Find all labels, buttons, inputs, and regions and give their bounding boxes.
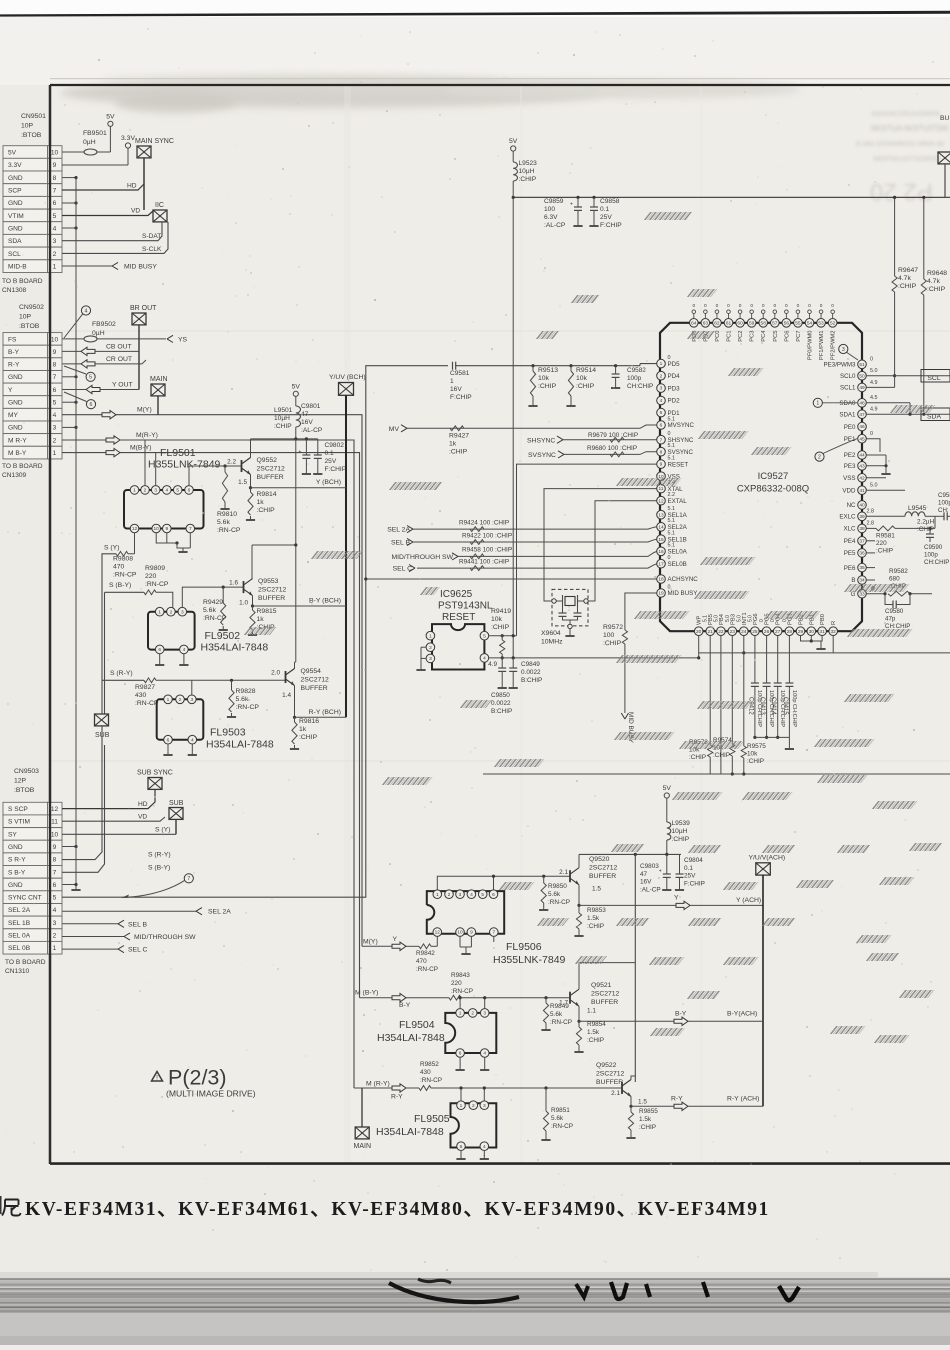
svg-text::RN-CP: :RN-CP: [135, 700, 159, 707]
svg-text:1.5k: 1.5k: [639, 1116, 652, 1123]
svg-text:6: 6: [90, 402, 93, 408]
svg-text:BUFFER: BUFFER: [257, 474, 284, 481]
svg-text:FL9506: FL9506: [506, 941, 542, 953]
svg-text:FS: FS: [8, 336, 17, 343]
svg-text:BUFFER: BUFFER: [596, 1079, 623, 1086]
svg-text:4.9: 4.9: [870, 407, 878, 413]
svg-text:M R-Y: M R-Y: [8, 437, 27, 444]
svg-text:25: 25: [752, 629, 758, 635]
svg-text:CH:CHIP: CH:CHIP: [885, 623, 910, 630]
svg-text:0: 0: [762, 303, 765, 309]
svg-text:0: 0: [739, 303, 742, 309]
svg-text:4.9: 4.9: [870, 380, 878, 386]
svg-text:7: 7: [53, 374, 57, 381]
svg-text:1: 1: [53, 450, 57, 457]
svg-text:100p: 100p: [938, 500, 950, 507]
svg-text:9: 9: [53, 349, 57, 356]
wire M(B-Y) input: [355, 990, 449, 1009]
svg-text:6: 6: [188, 488, 191, 494]
svg-text:36: 36: [859, 551, 865, 557]
svg-text:13: 13: [658, 512, 664, 518]
svg-text:!: !: [156, 1075, 158, 1082]
svg-text:PC5: PC5: [773, 331, 779, 342]
svg-text:4: 4: [53, 225, 57, 232]
svg-text:Y: Y: [393, 936, 398, 943]
resistor R9419: [491, 608, 511, 660]
resistor R9828: [227, 679, 259, 717]
svg-text:46: 46: [859, 424, 865, 430]
svg-text:C9582: C9582: [627, 367, 646, 374]
resistor R9573: [689, 635, 713, 774]
connector CN9501: [2, 113, 62, 294]
wire S-DAT: [62, 222, 162, 241]
svg-text:CXP86332-008Q: CXP86332-008Q: [737, 484, 809, 495]
svg-text:Y/UV (BCH): Y/UV (BCH): [329, 374, 366, 381]
wire HD (sub): [62, 790, 155, 809]
svg-text:SCP: SCP: [8, 187, 22, 194]
svg-text:0: 0: [782, 619, 788, 622]
wire PE4/PE5/PE6/B stubs: [866, 541, 875, 580]
svg-text:470: 470: [113, 564, 125, 571]
svg-text:R9816: R9816: [299, 718, 319, 725]
svg-text:39: 39: [859, 514, 865, 520]
svg-text:63: 63: [703, 320, 709, 326]
svg-text::CHIP: :CHIP: [898, 283, 917, 290]
svg-text:SCL: SCL: [927, 375, 940, 382]
svg-text:BUFFER: BUFFER: [301, 685, 328, 692]
svg-text:52: 52: [830, 320, 836, 326]
svg-text:M (R-Y): M (R-Y): [366, 1080, 390, 1087]
svg-text:10k: 10k: [491, 616, 503, 623]
connector CN9502: [2, 304, 62, 479]
svg-text:7: 7: [53, 869, 57, 876]
svg-text:4: 4: [483, 1144, 486, 1150]
svg-text:PE6: PE6: [844, 565, 856, 572]
svg-text::AL-CP: :AL-CP: [301, 427, 323, 434]
svg-text:4: 4: [53, 907, 57, 914]
svg-text:R9850: R9850: [548, 883, 567, 890]
svg-text:5.1: 5.1: [668, 543, 676, 549]
svg-text:16V: 16V: [301, 419, 313, 426]
resistor R9647: [892, 196, 918, 378]
svg-text:1: 1: [133, 488, 136, 494]
svg-text:8: 8: [53, 857, 57, 864]
svg-text::CHIP: :CHIP: [491, 624, 510, 631]
svg-text:M(Y): M(Y): [137, 407, 152, 414]
svg-text::CHIP: :CHIP: [927, 286, 946, 293]
resistor R9513: [528, 364, 558, 406]
svg-text:Q9522: Q9522: [596, 1062, 617, 1069]
svg-text:16: 16: [658, 549, 664, 555]
svg-text:R9679 100 :CHIP: R9679 100 :CHIP: [588, 432, 638, 439]
svg-text:4: 4: [165, 488, 168, 494]
annotation node 7: [122, 874, 193, 898]
svg-text:+: +: [570, 202, 573, 208]
svg-text:2.1: 2.1: [611, 1090, 620, 1097]
svg-text:56: 56: [784, 320, 790, 326]
svg-text:S (R-Y): S (R-Y): [148, 852, 171, 859]
svg-text:12: 12: [658, 498, 664, 504]
svg-text:2: 2: [448, 892, 451, 898]
wire 5V rail (ACH buffers): [579, 853, 681, 1082]
svg-text:RESET: RESET: [668, 461, 689, 468]
svg-text:100p: 100p: [924, 552, 938, 559]
svg-text:0: 0: [773, 303, 776, 309]
svg-text:EXLC: EXLC: [839, 514, 856, 521]
svg-text:5.6k: 5.6k: [548, 891, 561, 898]
svg-text:430: 430: [135, 692, 147, 699]
svg-text:X9604: X9604: [541, 630, 561, 637]
svg-text:15: 15: [658, 537, 664, 543]
svg-text:NC: NC: [847, 502, 856, 509]
node Y/U/V (ACH): [749, 855, 786, 1107]
resistor R9854: [574, 1020, 606, 1052]
svg-text:3: 3: [483, 1011, 486, 1017]
hatch marks (scan artifacts): [244, 212, 943, 1043]
svg-text:R9647: R9647: [898, 267, 918, 274]
svg-text:C9849: C9849: [521, 661, 540, 668]
svg-text:5: 5: [481, 892, 484, 898]
svg-text:7: 7: [187, 876, 190, 882]
svg-text:L9545: L9545: [908, 505, 927, 512]
filter FL9501: [124, 440, 221, 554]
svg-text:MAIN: MAIN: [354, 1143, 372, 1150]
capacitor C9858: [589, 197, 622, 229]
svg-text:C9415: C9415: [782, 697, 788, 715]
svg-text:47: 47: [640, 871, 648, 878]
svg-text:0: 0: [692, 303, 695, 309]
svg-text:53: 53: [818, 320, 824, 326]
svg-text:R-Y: R-Y: [8, 362, 20, 369]
svg-text:C9802: C9802: [325, 442, 345, 449]
svg-text:S-CLK: S-CLK: [142, 246, 162, 253]
IC9527 right pins 51-33: [824, 356, 878, 598]
wire 5V rail: [512, 196, 950, 658]
svg-text:PE3/PWM3: PE3/PWM3: [824, 362, 857, 369]
svg-text:SCL0: SCL0: [840, 373, 856, 380]
capacitor C9849: [509, 656, 543, 688]
svg-text::AL-CP: :AL-CP: [640, 886, 661, 893]
svg-text:45: 45: [859, 436, 865, 442]
svg-text:C9581: C9581: [450, 370, 470, 377]
svg-text:9: 9: [165, 526, 168, 532]
svg-text:(MULTI IMAGE DRIVE): (MULTI IMAGE DRIVE): [166, 1089, 256, 1099]
svg-text:L9523: L9523: [519, 160, 538, 167]
svg-text:R9809: R9809: [145, 565, 165, 572]
wire WP / R row: [697, 635, 950, 659]
svg-text:3: 3: [660, 386, 663, 392]
annotation node 2: [815, 439, 857, 462]
svg-text:1: 1: [816, 401, 819, 407]
svg-text:2.2: 2.2: [668, 492, 676, 498]
resistor R9843: [449, 972, 570, 1000]
svg-text::BTOB: :BTOB: [19, 323, 40, 330]
svg-text::CHIP: :CHIP: [689, 754, 706, 761]
svg-text:0.1: 0.1: [325, 450, 334, 457]
svg-text:220: 220: [451, 980, 462, 987]
svg-text:10: 10: [51, 149, 59, 156]
svg-text:8: 8: [53, 175, 57, 182]
capacitor C9804: [675, 854, 705, 890]
svg-text:A-9M OOAMROO MRA-W: A-9M OOAMROO MRA-W: [856, 139, 945, 148]
svg-text:2: 2: [179, 697, 182, 703]
svg-text:BR OUT: BR OUT: [130, 305, 157, 312]
svg-text:12: 12: [132, 526, 138, 532]
sync box SUB SYNC: [137, 770, 173, 790]
svg-text:CH:: CH:: [938, 507, 949, 514]
svg-text:R9514: R9514: [576, 367, 596, 374]
svg-text:BU: BU: [940, 115, 950, 122]
svg-text:GND: GND: [8, 399, 23, 406]
svg-text:0: 0: [759, 619, 765, 622]
svg-text:6: 6: [53, 882, 57, 889]
svg-text:PB0: PB0: [820, 614, 826, 625]
svg-text:B:CHIP: B:CHIP: [521, 677, 542, 684]
svg-text:R9852: R9852: [420, 1061, 439, 1068]
svg-text:RESET: RESET: [442, 612, 475, 623]
ferrite bead FB9502: [62, 321, 166, 342]
svg-text:4.5: 4.5: [870, 395, 878, 401]
svg-text:PG6: PG6: [753, 613, 759, 625]
svg-text:H354LAI-7848: H354LAI-7848: [201, 642, 269, 654]
svg-text:5.0: 5.0: [747, 615, 753, 622]
svg-text:R9680 100 :CHIP: R9680 100 :CHIP: [587, 445, 637, 452]
svg-text:MY: MY: [8, 412, 18, 419]
svg-text:ACHSYNC: ACHSYNC: [668, 576, 699, 583]
sync box BR OUT: [130, 305, 157, 390]
svg-text:5V: 5V: [8, 149, 17, 156]
resistor R9852: [419, 1061, 622, 1090]
capacitor C9590: [924, 527, 949, 566]
svg-text:R-Y: R-Y: [671, 1095, 683, 1102]
svg-text:MID-B: MID-B: [8, 264, 27, 271]
svg-text:S B-Y: S B-Y: [8, 869, 26, 876]
svg-text:5: 5: [89, 375, 92, 381]
IC9527 left pins 1-19: [657, 355, 699, 597]
svg-text:S (B-Y): S (B-Y): [148, 864, 170, 871]
svg-text:27: 27: [775, 629, 781, 635]
IC U9527 CXP86332-008Q: [660, 323, 862, 631]
resistor R9814: [246, 486, 277, 520]
svg-text:0: 0: [785, 303, 788, 309]
svg-text:M(B-Y): M(B-Y): [130, 445, 152, 452]
resistor R9648: [921, 196, 947, 416]
svg-text:2SC2712: 2SC2712: [589, 864, 618, 871]
svg-text:4: 4: [483, 656, 486, 662]
svg-text:8: 8: [53, 362, 57, 369]
svg-text:8: 8: [660, 449, 663, 455]
svg-text:PC0: PC0: [715, 331, 721, 342]
svg-text:M (B-Y): M (B-Y): [355, 990, 378, 997]
svg-text:4.7k: 4.7k: [927, 278, 940, 285]
svg-text:5: 5: [53, 213, 57, 220]
wire 5V collector rail (main stage): [251, 437, 318, 662]
svg-text:2SC2712: 2SC2712: [591, 990, 620, 997]
svg-text::RN-CP: :RN-CP: [548, 899, 570, 906]
svg-text:0.1: 0.1: [684, 865, 693, 872]
annotation node 5: [64, 366, 95, 381]
svg-text:F:CHIP: F:CHIP: [600, 222, 622, 229]
svg-text:57: 57: [772, 320, 778, 326]
svg-text:2.1: 2.1: [559, 869, 568, 876]
wire base Q9520: [437, 869, 570, 890]
svg-text:P(2/3): P(2/3): [168, 1066, 227, 1090]
svg-text::RN-CP: :RN-CP: [451, 988, 473, 995]
svg-text:TO B BOARD: TO B BOARD: [2, 463, 43, 470]
svg-text:Q9553: Q9553: [258, 578, 279, 585]
svg-text:MOITUA NOITUITSM: MOITUA NOITUITSM: [871, 124, 948, 133]
svg-text:4: 4: [470, 892, 473, 898]
svg-text:1.5k: 1.5k: [587, 1029, 600, 1036]
svg-text:SUB: SUB: [169, 800, 184, 807]
svg-text:ASIAACONJUGRPA: ASIAACONJUGRPA: [871, 109, 940, 118]
svg-text:18: 18: [658, 577, 664, 583]
svg-text:0: 0: [770, 619, 776, 622]
svg-text:6: 6: [492, 892, 495, 898]
svg-text:1: 1: [460, 1103, 463, 1109]
svg-text:100: 100: [603, 632, 615, 639]
sync box IIC: [153, 202, 167, 222]
svg-text:0µH: 0µH: [83, 139, 96, 146]
resistor R9809: [105, 565, 173, 714]
svg-text:R9815: R9815: [257, 608, 277, 615]
svg-text:H355LNK-7849: H355LNK-7849: [148, 459, 221, 471]
supply 5V: [106, 114, 115, 153]
svg-text::CHIP: :CHIP: [603, 640, 622, 647]
svg-text:100: 100: [544, 206, 555, 213]
svg-text:1k: 1k: [257, 499, 265, 506]
svg-text:5.1: 5.1: [668, 443, 676, 449]
annotation P(2/3): [152, 1066, 256, 1099]
svg-text::CHIP: :CHIP: [257, 507, 276, 514]
svg-text:R9419: R9419: [491, 608, 511, 615]
svg-text:B-Y: B-Y: [399, 1002, 411, 1009]
wire SYNC CNT: [62, 366, 448, 898]
svg-text:3: 3: [459, 892, 462, 898]
svg-text:10P: 10P: [21, 123, 34, 130]
svg-text:XLC: XLC: [843, 526, 856, 533]
wire VCC 4.9: [488, 658, 699, 668]
svg-text:0: 0: [668, 431, 671, 437]
svg-text:2: 2: [53, 933, 57, 940]
svg-text:C9858: C9858: [600, 198, 620, 205]
svg-text:SY: SY: [8, 831, 17, 838]
svg-text:SDA1: SDA1: [839, 411, 856, 418]
svg-text::CHIP: :CHIP: [917, 526, 934, 533]
svg-text:54: 54: [807, 320, 813, 326]
wire M(R-Y) input: [354, 1080, 419, 1100]
svg-text:5.0: 5.0: [870, 483, 878, 489]
svg-text:+: +: [659, 869, 662, 875]
svg-text:IC9625: IC9625: [440, 589, 473, 600]
svg-text:SEL0B: SEL0B: [668, 561, 687, 568]
transistor Q9554: [271, 662, 329, 717]
svg-text:49: 49: [859, 385, 865, 391]
svg-text:S R-Y: S R-Y: [8, 857, 26, 864]
svg-text:6: 6: [660, 423, 663, 429]
svg-text:PD2: PD2: [668, 398, 681, 405]
svg-text:PST9143NL: PST9143NL: [438, 601, 493, 612]
svg-text:PE4: PE4: [844, 538, 856, 545]
svg-text:48: 48: [859, 400, 865, 406]
wire PB2/PB1/PB0 ground: [801, 635, 826, 649]
svg-text:GND: GND: [8, 225, 23, 232]
svg-text:35: 35: [859, 565, 865, 571]
svg-text:C9413: C9413: [759, 697, 765, 715]
svg-text:1: 1: [53, 264, 57, 271]
svg-text:9: 9: [660, 462, 663, 468]
svg-text:R-Y (ACH): R-Y (ACH): [727, 1095, 759, 1102]
resistor R9581: [866, 526, 935, 555]
capacitor C9803: [640, 854, 671, 893]
wire S(Y): [62, 826, 176, 834]
wire MID/THROUGH SW: [62, 933, 196, 941]
svg-text:S (R-Y): S (R-Y): [110, 670, 133, 677]
wire S(B-Y): [62, 745, 170, 872]
svg-text:Q9552: Q9552: [257, 457, 278, 464]
svg-text:16V: 16V: [450, 386, 462, 393]
svg-text:3: 3: [483, 1103, 486, 1109]
ground bus left: [62, 176, 81, 890]
svg-text:B-Y (BCH): B-Y (BCH): [309, 598, 341, 605]
filter FL9504: [377, 996, 496, 1070]
resistor R9851: [541, 1086, 573, 1140]
svg-text:1.5: 1.5: [638, 1098, 647, 1105]
svg-text:SUB SYNC: SUB SYNC: [137, 770, 173, 777]
svg-text:21: 21: [708, 629, 714, 635]
svg-text:R9424 100 :CHIP: R9424 100 :CHIP: [459, 520, 509, 527]
svg-text:3: 3: [429, 656, 432, 662]
svg-text:1k: 1k: [299, 726, 307, 733]
svg-text:43: 43: [859, 463, 865, 469]
svg-text:C9803: C9803: [640, 863, 659, 870]
svg-text:R9648: R9648: [927, 270, 947, 277]
svg-text:12P: 12P: [14, 778, 27, 785]
svg-text:SDA: SDA: [8, 238, 22, 245]
svg-text:41: 41: [859, 488, 865, 494]
svg-text:MID/THROUGH SW: MID/THROUGH SW: [134, 934, 196, 941]
svg-text:C9414: C9414: [770, 697, 776, 715]
svg-text:R9853: R9853: [587, 907, 606, 914]
svg-text:0: 0: [831, 303, 834, 309]
svg-text:20: 20: [696, 629, 702, 635]
svg-text:24: 24: [741, 629, 747, 635]
svg-text:2: 2: [818, 454, 821, 460]
svg-text:10µH: 10µH: [672, 828, 688, 835]
resistor R9850: [539, 875, 570, 910]
svg-text:SYNC CNT: SYNC CNT: [8, 895, 42, 902]
svg-text:5.6k: 5.6k: [217, 519, 230, 526]
svg-text:Q9521: Q9521: [591, 982, 612, 989]
wire ACHSYNC: [364, 577, 657, 580]
svg-text:28: 28: [787, 629, 793, 635]
svg-text:25V: 25V: [600, 214, 612, 221]
filter FL9505: [376, 1086, 496, 1159]
svg-text::RN-CP: :RN-CP: [217, 527, 241, 534]
svg-text:1.1: 1.1: [587, 1008, 596, 1015]
svg-text:PF2/PWM2: PF2/PWM2: [831, 331, 837, 361]
svg-text:5V: 5V: [292, 384, 301, 391]
svg-text:2: 2: [170, 609, 173, 615]
svg-text:Q9520: Q9520: [589, 856, 610, 863]
svg-text:YS: YS: [178, 336, 188, 343]
svg-text:BUFFER: BUFFER: [591, 999, 618, 1006]
svg-text:TO B BOARD: TO B BOARD: [5, 959, 46, 966]
svg-text:1: 1: [429, 633, 432, 639]
svg-text:1.6: 1.6: [229, 580, 238, 587]
svg-text:0: 0: [870, 431, 873, 437]
svg-text::RN-CP: :RN-CP: [113, 572, 137, 579]
